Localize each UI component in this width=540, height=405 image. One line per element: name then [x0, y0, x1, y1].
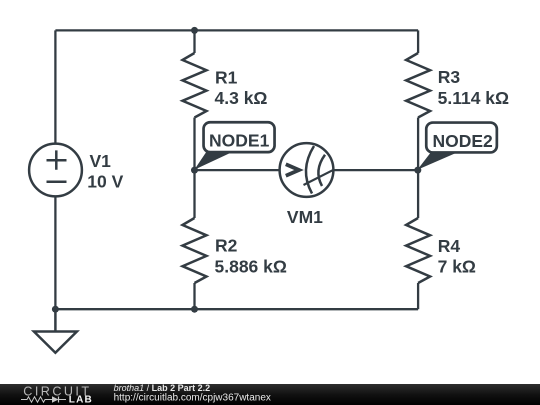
node NODE1 [191, 122, 275, 173]
svg-text:R4: R4 [438, 236, 461, 256]
wire VM1 right lead [334, 169, 418, 171]
svg-text:VM1: VM1 [287, 207, 323, 227]
wire R1 top lead [193, 30, 195, 53]
svg-text:LAB: LAB [69, 394, 93, 405]
wire left branch lower (V1 bottom lead) [54, 197, 56, 309]
node NODE2 [414, 123, 497, 174]
wire VM1 left lead [195, 169, 280, 171]
svg-text:http://circuitlab.com/cpjw367w: http://circuitlab.com/cpjw367wtanex [114, 393, 271, 404]
svg-text:R2: R2 [215, 236, 238, 256]
wire R2 bottom lead [193, 283, 195, 309]
svg-text:10 V: 10 V [87, 172, 123, 192]
svg-text:V1: V1 [90, 151, 112, 171]
logo diode triangle [52, 396, 59, 402]
wire R3 top lead [417, 30, 419, 53]
svg-text:R1: R1 [215, 67, 238, 87]
wire R3 bottom lead [417, 118, 419, 171]
svg-text:5.886 kΩ: 5.886 kΩ [215, 256, 287, 276]
node junction bottom rail left [52, 306, 59, 313]
footer bar [0, 384, 540, 405]
ground [34, 309, 77, 353]
svg-text:4.3 kΩ: 4.3 kΩ [215, 88, 268, 108]
resistor R1 [183, 53, 207, 118]
resistor R2 [183, 218, 207, 283]
resistor R4 [406, 218, 430, 283]
svg-text:7 kΩ: 7 kΩ [438, 256, 476, 276]
wire left branch upper (V1 top lead) [54, 30, 56, 143]
wire R4 bottom lead [417, 283, 419, 309]
node junction top rail [191, 27, 198, 34]
svg-text:brotha1 / Lab 2 Part 2.2: brotha1 / Lab 2 Part 2.2 [114, 383, 211, 393]
wire bottom rail [55, 308, 418, 310]
svg-text:NODE1: NODE1 [209, 131, 270, 151]
svg-text:5.114 kΩ: 5.114 kΩ [438, 88, 509, 108]
logo resistor-diode squiggle [21, 397, 66, 403]
svg-text:R3: R3 [438, 67, 461, 87]
resistor R3 [406, 53, 430, 118]
wire R4 top lead [417, 170, 419, 218]
wire R1 bottom lead [193, 118, 195, 171]
wire top rail [55, 29, 418, 31]
node junction bottom rail middle [191, 306, 198, 313]
svg-text:NODE2: NODE2 [432, 131, 493, 151]
voltage source V1 [29, 144, 82, 197]
voltmeter VM1 [280, 143, 334, 197]
wire R2 top lead [193, 170, 195, 218]
